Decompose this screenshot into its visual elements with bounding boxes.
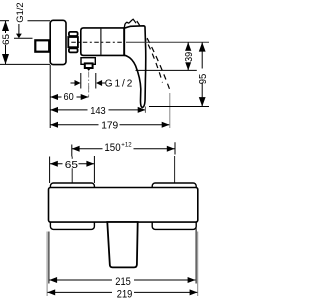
- svg-text:65: 65: [1, 34, 11, 45]
- 179 dim: [50, 124, 169, 126]
- svg-text:219: 219: [117, 289, 133, 300]
- body pivot joint line: [123, 28, 125, 55]
- 219 right extension (grey): [197, 232, 199, 297]
- svg-text:60: 60: [64, 91, 74, 103]
- outlet bottom extension line right: [136, 69, 197, 71]
- shower mixer dimensional drawing: [0, 0, 209, 300]
- axis extension line (grey): [126, 41, 209, 43]
- 65 dim label: [1, 33, 11, 45]
- left centerline: [71, 157, 73, 197]
- handle neck stub: [123, 25, 126, 29]
- svg-text:G1/2: G1/2: [15, 2, 26, 22]
- G1/2 top leader line: [18, 24, 20, 35]
- outlet left extension line: [80, 73, 82, 89]
- G1/2 bottom leader left arrow: [71, 82, 77, 84]
- 219 dim: [47, 291, 197, 293]
- square top extension line: [14, 37, 33, 39]
- body (side view): [81, 28, 124, 56]
- svg-text:215: 215: [115, 276, 131, 288]
- G1/2 top leader arrow: [16, 34, 22, 39]
- svg-text:95: 95: [197, 74, 209, 85]
- handle (front): [107, 222, 137, 267]
- union nut body: [68, 37, 78, 47]
- G1/2 bottom leader right arrow: [96, 80, 102, 86]
- union nut bottom cap: [69, 48, 78, 52]
- svg-text:G1/2: G1/2: [105, 79, 133, 90]
- 65 left extension: [49, 157, 51, 184]
- 65 dim top extension line: [0, 20, 9, 22]
- handle (side view, closed position silhouette): [124, 26, 146, 108]
- svg-text:65: 65: [65, 159, 78, 171]
- 65 dim arrow up: [2, 21, 9, 31]
- svg-text:+12: +12: [121, 141, 132, 148]
- 39 dim: [187, 42, 189, 70]
- outlet nipple: [85, 63, 93, 68]
- svg-text:39: 39: [183, 52, 195, 62]
- body seam vertical: [100, 29, 102, 55]
- 150+12 dim: [72, 148, 175, 150]
- outlet centerline (grey dashed): [88, 72, 90, 98]
- 215 right extension: [195, 228, 197, 284]
- outlet right extension line: [95, 73, 97, 89]
- right escutcheon (front): [152, 183, 196, 229]
- body axis line: [71, 41, 123, 43]
- outlet centerline upper stub: [88, 86, 90, 92]
- outlet box: [81, 58, 95, 65]
- 179 extension line (grey): [169, 93, 171, 128]
- body bar (front): [49, 188, 198, 223]
- 150 right extension: [174, 142, 176, 154]
- wall extension line down: [49, 65, 51, 128]
- handle break squiggle: [125, 19, 134, 24]
- svg-text:179: 179: [101, 120, 118, 132]
- 65 dim (front): [50, 163, 94, 165]
- 215 left extension: [48, 232, 50, 284]
- handle tip bottom extension line: [149, 106, 209, 108]
- svg-text:143: 143: [90, 105, 106, 117]
- left escutcheon (front): [50, 183, 94, 229]
- 65 dim arrow down: [2, 54, 9, 64]
- 65 right extension: [93, 156, 95, 183]
- 143 right extension stub: [144, 107, 146, 113]
- svg-text:150: 150: [104, 142, 120, 154]
- 219 left extension (grey): [46, 232, 48, 297]
- wall thread square: [35, 40, 49, 51]
- handle open position dash curve 2: [137, 21, 171, 93]
- right centerline: [174, 156, 176, 196]
- wall escutcheon (side): [50, 20, 66, 64]
- union nut top cap: [69, 32, 78, 36]
- 65 dim bottom extension line: [0, 63, 50, 65]
- 143 dim: [50, 109, 145, 111]
- handle open position dash curve 1: [133, 19, 163, 83]
- outlet cone tip: [87, 69, 91, 71]
- 215 dim: [49, 279, 195, 281]
- 65 dim vertical line: [5, 21, 7, 65]
- 95 dim: [201, 42, 203, 106]
- 150 left extension: [71, 145, 73, 157]
- 60 dim: [50, 96, 88, 98]
